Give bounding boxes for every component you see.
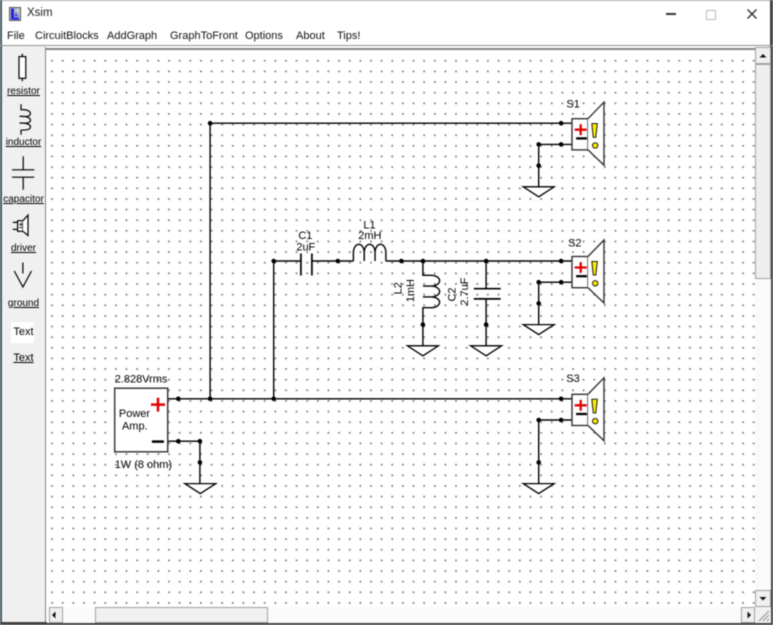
node: S2 minus pin [558,280,563,285]
wire: mid branch vertical [272,261,274,399]
node: mid vert bottom [271,396,276,401]
close button [746,8,758,20]
resize grip [755,607,771,623]
ground S2 [523,324,554,334]
speaker S2 [568,237,604,302]
vertical scrollbar [755,47,771,607]
node: S3 minus corner [536,417,541,422]
power amp U1 [114,388,167,452]
node: S1 plus pin [558,121,563,126]
ground amp [184,483,215,493]
canvas frame left border [45,47,47,623]
node: S1 minus pin [558,142,563,147]
wire: left vertical [209,123,211,399]
wire: C1 to L1 [311,260,352,262]
node: L2 tap [420,258,425,263]
v-scroll down button [755,590,771,607]
svg-text:S3: S3 [566,373,579,385]
node: S3 plus pin [558,396,563,401]
horizontal scrollbar [47,607,755,623]
wire: bottom net [167,397,571,399]
node: C2 gnd pin [483,322,488,327]
svg-text:S2: S2 [568,237,581,249]
svg-text:2uF: 2uF [296,241,315,253]
inductor L2 [422,261,439,346]
svg-text:L2: L2 [392,282,404,294]
svg-text:Power: Power [118,407,149,419]
svg-text:1mH: 1mH [405,279,417,302]
maximize button (disabled) [706,10,716,20]
pin + of power amp [151,397,165,411]
wire: mid net segment C1 left [273,260,300,262]
v-scroll thumb [755,64,771,279]
node: L1 right pin [399,258,404,263]
node: top-left corner [207,121,212,126]
svg-text:2mH: 2mH [358,230,381,242]
svg-text:2.828Vrms: 2.828Vrms [114,373,167,385]
svg-text:Amp.: Amp. [121,420,147,432]
left toolbar background [2,46,45,622]
v-scroll up button [755,47,771,64]
app icon [9,7,21,21]
window top border [0,0,773,1]
node: amp minus corner [197,439,202,444]
svg-text:1W (8 ohm): 1W (8 ohm) [114,458,171,470]
resistor tool icon [21,54,23,82]
svg-text:S1: S1 [566,98,579,110]
node: S2 gnd pin [536,301,541,306]
driver tool icon [13,222,18,229]
ground L2 [407,345,438,355]
node: S1 gnd pin [536,163,541,168]
ground S1 [523,186,554,196]
wire: S2 minus [538,282,571,324]
node: amp plus pin [176,396,181,401]
Text label [2,352,45,364]
window left border [0,0,2,625]
wire: S1 minus [538,144,571,186]
ground S3 [523,483,554,493]
window title [27,7,53,19]
node: left vert bottom [207,396,212,401]
node: amp gnd pin [197,460,202,465]
node: S2 minus corner [536,280,541,285]
minimize button [666,13,676,15]
node: C2 tap [483,258,488,263]
capacitor C1 [300,253,311,275]
svg-text:C2: C2 [446,287,458,301]
window bottom border [0,622,773,625]
toolbar icons [2,46,45,622]
h-scroll left button [49,607,63,623]
ground C2 [470,345,501,355]
pin - of power amp [151,440,163,443]
canvas frame top border [45,48,771,50]
ground tool icon [14,263,31,288]
wire: top net horizontal [210,122,572,124]
h-scroll right button [741,607,756,623]
h-scroll thumb [95,607,268,623]
node: L2 gnd pin [420,322,425,327]
toolbar labels [2,86,45,97]
menu bar [2,27,770,45]
wire: amp minus [167,441,199,483]
speaker S1 [566,98,604,165]
node: mid corner [271,258,276,263]
wire: L1 to S2 [385,260,571,262]
wire: S3 minus [538,420,571,484]
capacitor C2 [485,261,487,346]
title bar [2,1,770,27]
Text tool button [11,322,35,344]
node: S3 minus pin [558,417,563,422]
window right border [770,0,773,625]
node: amp minus pin [176,439,181,444]
svg-text:2.7uF: 2.7uF [458,277,470,305]
node: S1 minus corner [536,142,541,147]
speaker S3 [566,373,604,441]
node: S2 plus pin [558,258,563,263]
capacitor tool icon [12,156,34,190]
svg-text:C1: C1 [298,230,312,242]
inductor L1 [353,244,385,261]
node: C1-L1 [335,258,340,263]
node: S3 gnd pin [536,460,541,465]
inductor tool icon [20,104,31,135]
